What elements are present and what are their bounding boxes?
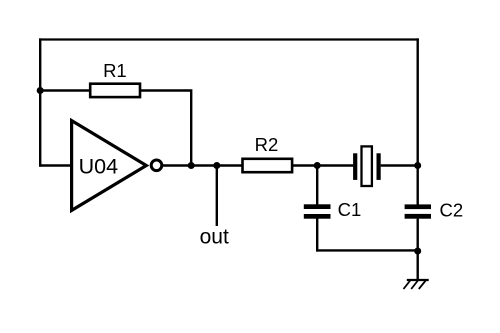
wire C1 bottom: [316, 219, 318, 252]
node junction J1: [37, 87, 44, 94]
wire ground stub: [417, 251, 419, 280]
node junction J2: [188, 162, 195, 169]
wire R1 right: [140, 91, 191, 167]
node junction J3: [213, 162, 220, 169]
capacitor C2 plate bottom: [405, 214, 431, 219]
wire out stub: [216, 164, 218, 226]
capacitor C1 plate bottom: [304, 214, 331, 219]
crystal body: [362, 146, 372, 186]
resistor R1: [90, 84, 140, 97]
svg-text:U04: U04: [79, 155, 118, 179]
node junction J4: [314, 162, 321, 169]
wire R1 left: [39, 89, 90, 91]
wire left vertical: [39, 38, 41, 166]
wire bottom bus: [316, 249, 418, 251]
node junction J5: [414, 162, 421, 169]
svg-text:C2: C2: [440, 200, 464, 221]
node junction J6: [414, 248, 421, 255]
svg-text:R2: R2: [255, 134, 279, 155]
wire R2 right: [293, 164, 353, 166]
inverter bubble: [151, 160, 162, 171]
wire C2 bottom: [417, 219, 419, 252]
capacitor C2 plate top: [405, 204, 431, 209]
crystal right electrode: [377, 153, 381, 180]
ground hatch 3: [419, 281, 426, 290]
ground bar: [407, 279, 429, 281]
ground hatch 2: [411, 281, 418, 290]
crystal left electrode: [353, 153, 357, 180]
svg-text:R1: R1: [103, 60, 127, 81]
inverter U04: [72, 121, 147, 211]
wire crystal right: [381, 164, 419, 166]
capacitor C1 plate top: [304, 204, 331, 209]
svg-text:out: out: [200, 225, 229, 248]
resistor R2: [243, 159, 293, 172]
svg-text:C1: C1: [338, 199, 362, 220]
wire feedback top: [39, 38, 419, 40]
wire C1 top: [316, 166, 318, 205]
wire right vertical: [417, 38, 419, 204]
wire inverter input: [39, 164, 73, 166]
ground hatch 1: [404, 281, 411, 290]
wire inverter output: [162, 164, 242, 166]
